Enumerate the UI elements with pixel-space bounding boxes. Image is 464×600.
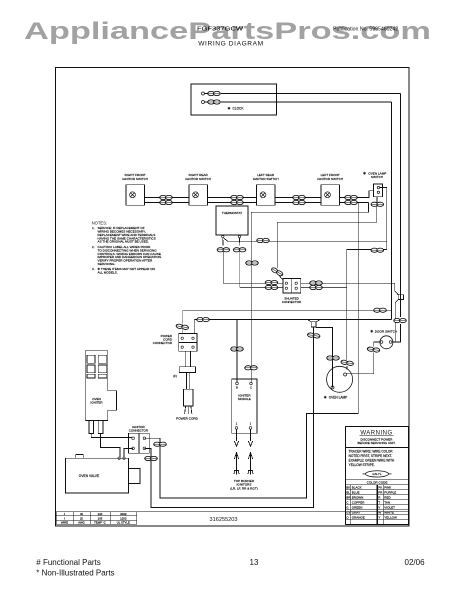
svg-text:IGNITOR SWITCH: IGNITOR SWITCH [185, 177, 211, 181]
connector below lamp switch [371, 202, 384, 206]
svg-text:✱: ✱ [228, 106, 231, 110]
svg-text:BROWN: BROWN [352, 495, 364, 499]
connector C15 [394, 319, 407, 323]
svg-text:(F): (F) [173, 374, 177, 378]
svg-text:BEFORE SERVICING UNIT.: BEFORE SERVICING UNIT. [358, 441, 396, 445]
svg-text:TEMP °C: TEMP °C [94, 521, 106, 525]
svg-text:Y: Y [378, 515, 380, 519]
svg-text:AS THE ORIGINAL MUST BE USED.: AS THE ORIGINAL MUST BE USED. [98, 240, 150, 244]
svg-text:T: T [378, 500, 380, 504]
svg-text:PINK: PINK [384, 485, 391, 489]
wire y287 right [240, 286, 347, 288]
wire bus segment 3 [275, 198, 321, 203]
svg-text:ALL MODELS.: ALL MODELS. [98, 271, 118, 275]
wire lamp to doorsw [347, 353, 374, 374]
wire x400 mid [400, 291, 402, 317]
wire tap y240 [228, 240, 387, 242]
wire doorsw right [392, 324, 401, 342]
svg-text:ORANGE: ORANGE [352, 515, 365, 519]
wire thermostat diagonal [224, 238, 229, 242]
svg-text:Publication No. 5995460242: Publication No. 5995460242 [333, 27, 398, 33]
connector tilted C9 [271, 267, 284, 277]
svg-text:CLOCK: CLOCK [233, 106, 245, 110]
svg-text:B: B [236, 386, 238, 390]
wire vertical V347 [346, 250, 348, 361]
connector C18 [231, 347, 244, 351]
wire module top left [236, 320, 238, 383]
wire doorsw left [374, 342, 381, 347]
label top burner ignitors [230, 479, 258, 490]
svg-text:BL: BL [346, 490, 350, 494]
svg-text:THERMOSTAT: THERMOSTAT [222, 211, 242, 215]
svg-text:GREEN: GREEN [352, 505, 363, 509]
connector C10a [265, 281, 278, 285]
oven lamp LP1 [324, 366, 353, 399]
connector C22 [154, 442, 167, 446]
switch S2 RIGHT REAR ignitor switch [185, 173, 211, 205]
power cord prongs [185, 406, 192, 414]
wire lamp tap 1 [277, 207, 377, 269]
wire conn to valve [124, 448, 133, 457]
connector C5 [257, 238, 270, 242]
svg-text:OVEN LAMP: OVEN LAMP [329, 395, 348, 399]
svg-text:UL STYLE: UL STYLE [117, 521, 130, 525]
clock connector pin 2 [202, 101, 208, 104]
door switch DS1 [370, 329, 397, 349]
connector pair P2b [231, 200, 244, 204]
title WIRING DIAGRAM [198, 41, 264, 48]
wire into shunted conn [279, 275, 285, 282]
bottom strip line [56, 511, 410, 513]
connector C11a [310, 281, 323, 285]
svg-text:TRACER WIRE: WIRE COLOR: TRACER WIRE: WIRE COLOR [349, 450, 394, 454]
wire bus segment 2 [208, 198, 257, 203]
svg-text:GN-YL: GN-YL [372, 472, 382, 476]
svg-text:02/06: 02/06 [405, 558, 426, 567]
svg-text:MODULE: MODULE [238, 397, 251, 401]
switch S4 LEFT FRONT ignitor switch [317, 173, 343, 205]
svg-text:WARNING: WARNING [360, 430, 392, 436]
wire oven lamp feed [316, 328, 332, 388]
svg-text:POWER CORD: POWER CORD [176, 416, 198, 420]
svg-text:✱: ✱ [363, 171, 366, 175]
wire bus segment 4 [340, 191, 374, 203]
svg-text:SERVICING.: SERVICING. [98, 262, 116, 266]
connector J1 [208, 91, 221, 95]
svg-text:GY: GY [346, 510, 350, 514]
connector C20 [327, 356, 340, 360]
power cord neck [185, 351, 190, 367]
spark gap left [234, 429, 239, 474]
svg-text:DOOR SWITCH: DOOR SWITCH [375, 329, 397, 333]
svg-text:RED: RED [384, 495, 391, 499]
svg-text:TAN: TAN [384, 500, 390, 504]
wire bus segment 1 [145, 198, 190, 203]
connector pair P1a [160, 195, 173, 199]
svg-text:IGNITOR SWITCH: IGNITOR SWITCH [253, 177, 279, 181]
switch S1 RIGHT FRONT ignitor switch [122, 173, 148, 205]
svg-text:COPPER: COPPER [352, 500, 366, 504]
svg-text:IGNITOR SWITCH: IGNITOR SWITCH [122, 177, 148, 181]
svg-text:13: 13 [250, 558, 259, 567]
power cord flange [179, 367, 195, 373]
svg-text:CONNECTOR: CONNECTOR [153, 341, 173, 345]
svg-text:CONNECTOR: CONNECTOR [282, 300, 302, 304]
connector thermostat left [217, 248, 230, 252]
connector C16 [307, 333, 320, 339]
svg-text:✱: ✱ [370, 329, 373, 333]
label (F) [173, 374, 177, 378]
outer border [56, 68, 410, 527]
wire y310 [183, 309, 392, 311]
notes text block [92, 221, 162, 275]
connector C17 [367, 347, 380, 353]
connector C23 [145, 456, 158, 460]
svg-text:BK: BK [346, 485, 350, 489]
igniter module M1 [232, 379, 257, 433]
svg-text:CONNECTOR: CONNECTOR [129, 429, 149, 433]
wire y319 [194, 319, 391, 321]
wire igniter leg left [91, 433, 132, 437]
connector C21 [341, 360, 354, 366]
connector C6 [371, 248, 384, 252]
thermostat TH1 [216, 206, 248, 238]
part number 316255203 [210, 517, 238, 523]
clock box [191, 84, 276, 115]
svg-text:(LR, LF, RR & RGT): (LR, LF, RR & RGT) [230, 486, 258, 490]
connector C10b [265, 285, 278, 289]
svg-text:✱: ✱ [324, 395, 327, 399]
svg-text:OVEN VALVE: OVEN VALVE [79, 474, 100, 478]
connector pair P4a [345, 195, 358, 199]
svg-text:2.: 2. [92, 245, 95, 249]
svg-text:YELLOW STRIPE.: YELLOW STRIPE. [349, 463, 375, 467]
svg-text:C: C [250, 386, 252, 390]
svg-text:WIRING DIAGRAM: WIRING DIAGRAM [198, 41, 264, 48]
svg-text:IGNITER: IGNITER [90, 400, 103, 404]
connector C12 [374, 308, 387, 312]
wire clock L2 [221, 102, 392, 320]
wire y283 long [223, 282, 395, 284]
svg-text:316255203: 316255203 [210, 517, 238, 523]
wire main vertical V1 [250, 212, 252, 383]
svg-text:IGNITOR SWITCH: IGNITOR SWITCH [317, 177, 343, 181]
switch S5 oven lamp switch [363, 171, 386, 196]
warning box with color code table [346, 427, 409, 525]
footer non-illustrated parts [36, 568, 114, 577]
wire power conn left drop [182, 310, 184, 333]
svg-text:YELLOW: YELLOW [384, 515, 397, 519]
svg-text:GRAY: GRAY [352, 510, 360, 514]
connector pair P3b [293, 200, 306, 204]
svg-text:PURPLE: PURPLE [384, 490, 396, 494]
header publication number [333, 27, 398, 33]
power cord plug [183, 389, 193, 406]
svg-text:AWG: AWG [78, 521, 85, 525]
footer date [405, 558, 426, 567]
svg-text:WIRE: WIRE [61, 521, 68, 525]
footer functional parts [36, 558, 100, 567]
connector pair P3a [293, 195, 306, 199]
label POWER CORD [176, 416, 198, 420]
svg-text:W: W [378, 510, 381, 514]
svg-text:EXAMPLE: GREEN WIRE WITH: EXAMPLE: GREEN WIRE WITH [349, 459, 395, 463]
wire border jog [395, 283, 398, 342]
power cord connector CN2 [153, 334, 197, 352]
connector pair P2a [231, 195, 244, 199]
svg-text:NOTES:: NOTES: [92, 221, 108, 226]
svg-text:WHITE: WHITE [384, 510, 394, 514]
wire y249 [347, 249, 387, 251]
shunted connector CN1 [282, 279, 302, 304]
wire gauge table [56, 512, 137, 525]
splice box on loop B [308, 320, 321, 327]
connector pair P4b [345, 200, 358, 204]
connector J2 [208, 100, 221, 104]
svg-text:SWITCH: SWITCH [371, 175, 383, 179]
svg-text:BLACK: BLACK [352, 485, 362, 489]
label * CLOCK [228, 106, 245, 110]
wire power conn right drop [193, 320, 194, 334]
header model number [197, 27, 243, 33]
connector C13 [197, 318, 210, 322]
connector C14 [176, 324, 189, 330]
wire right lead down [239, 252, 241, 288]
svg-text:FGF337GCW: FGF337GCW [197, 27, 243, 33]
svg-text:* Non-Illustrated Parts: * Non-Illustrated Parts [36, 568, 114, 577]
wire lamp switch bottom lead [376, 197, 378, 207]
svg-text:NOTED FIRST, STRIPE NEXT.: NOTED FIRST, STRIPE NEXT. [349, 454, 393, 458]
wire loop B [144, 327, 313, 508]
connector pair P1b [160, 200, 173, 204]
connector on V1 upper [246, 261, 259, 265]
svg-text:PK: PK [378, 485, 382, 489]
wire bus tap A [251, 203, 368, 213]
footer page number [250, 558, 259, 567]
clock connector pin 1 [202, 92, 208, 95]
ignitor connector CN3 [129, 425, 150, 453]
spark gap right [248, 429, 253, 474]
watermark AppliancePartsPros.com [24, 18, 431, 45]
switch S3 LEFT REAR ignitor switch [253, 173, 279, 205]
connector C19 [245, 366, 258, 370]
svg-text:COLOR CODE: COLOR CODE [367, 480, 388, 484]
wire lamp switch top lead [380, 188, 387, 250]
wire thermostat lead right [238, 238, 240, 246]
oven valve V1 [66, 454, 140, 493]
wire clock L1 [221, 94, 401, 292]
connector box on border [398, 295, 403, 300]
wire igniter leg right [101, 433, 120, 457]
svg-text:VIOLET: VIOLET [384, 505, 395, 509]
svg-text:# Functional Parts: # Functional Parts [36, 558, 100, 567]
connector C11b [310, 285, 323, 289]
connector thermostat right [233, 248, 246, 252]
svg-text:1.: 1. [92, 226, 95, 230]
svg-text:V: V [378, 505, 380, 509]
wire V347 to lamp [346, 366, 348, 370]
svg-text:BLUE: BLUE [352, 490, 360, 494]
oven igniter HE1 [85, 351, 116, 434]
svg-text:3.: 3. [92, 267, 95, 271]
wire left lead down [222, 252, 224, 284]
power cord shaft [187, 372, 190, 389]
wire loop A [144, 203, 358, 498]
wire thermostat lead left [222, 238, 224, 246]
